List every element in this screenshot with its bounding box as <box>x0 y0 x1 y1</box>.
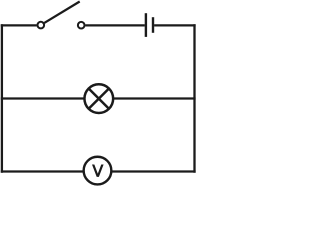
voltmeter V1: circle <box>84 157 112 185</box>
wire: bottom-left segment (left bus to voltmeter) <box>1 170 84 172</box>
lamp L1: cross diagonal 2 <box>89 88 109 108</box>
wire: middle-left segment (left bus to lamp) <box>1 97 84 99</box>
wire: left vertical bus <box>1 24 3 172</box>
lamp L1: cross diagonal 1 <box>89 88 109 108</box>
wire: top-left segment (left bus to switch) <box>1 24 37 26</box>
wire: switch to battery segment <box>85 24 145 26</box>
wire: bottom-right segment (voltmeter to right bus) <box>111 170 195 172</box>
lamp L1: circle <box>84 84 113 113</box>
wire: right vertical bus <box>193 24 195 172</box>
switch S1: right terminal circle <box>78 22 85 29</box>
voltmeter V1: letter V <box>92 165 104 177</box>
battery B1: short plate (negative) <box>152 17 154 33</box>
switch S1: left terminal circle <box>38 22 45 29</box>
switch S1: lever arm (open) <box>44 2 79 23</box>
wire: battery to right bus segment <box>154 24 196 26</box>
battery B1: long plate (positive) <box>145 13 147 37</box>
wire: middle-right segment (lamp to right bus) <box>114 97 196 99</box>
